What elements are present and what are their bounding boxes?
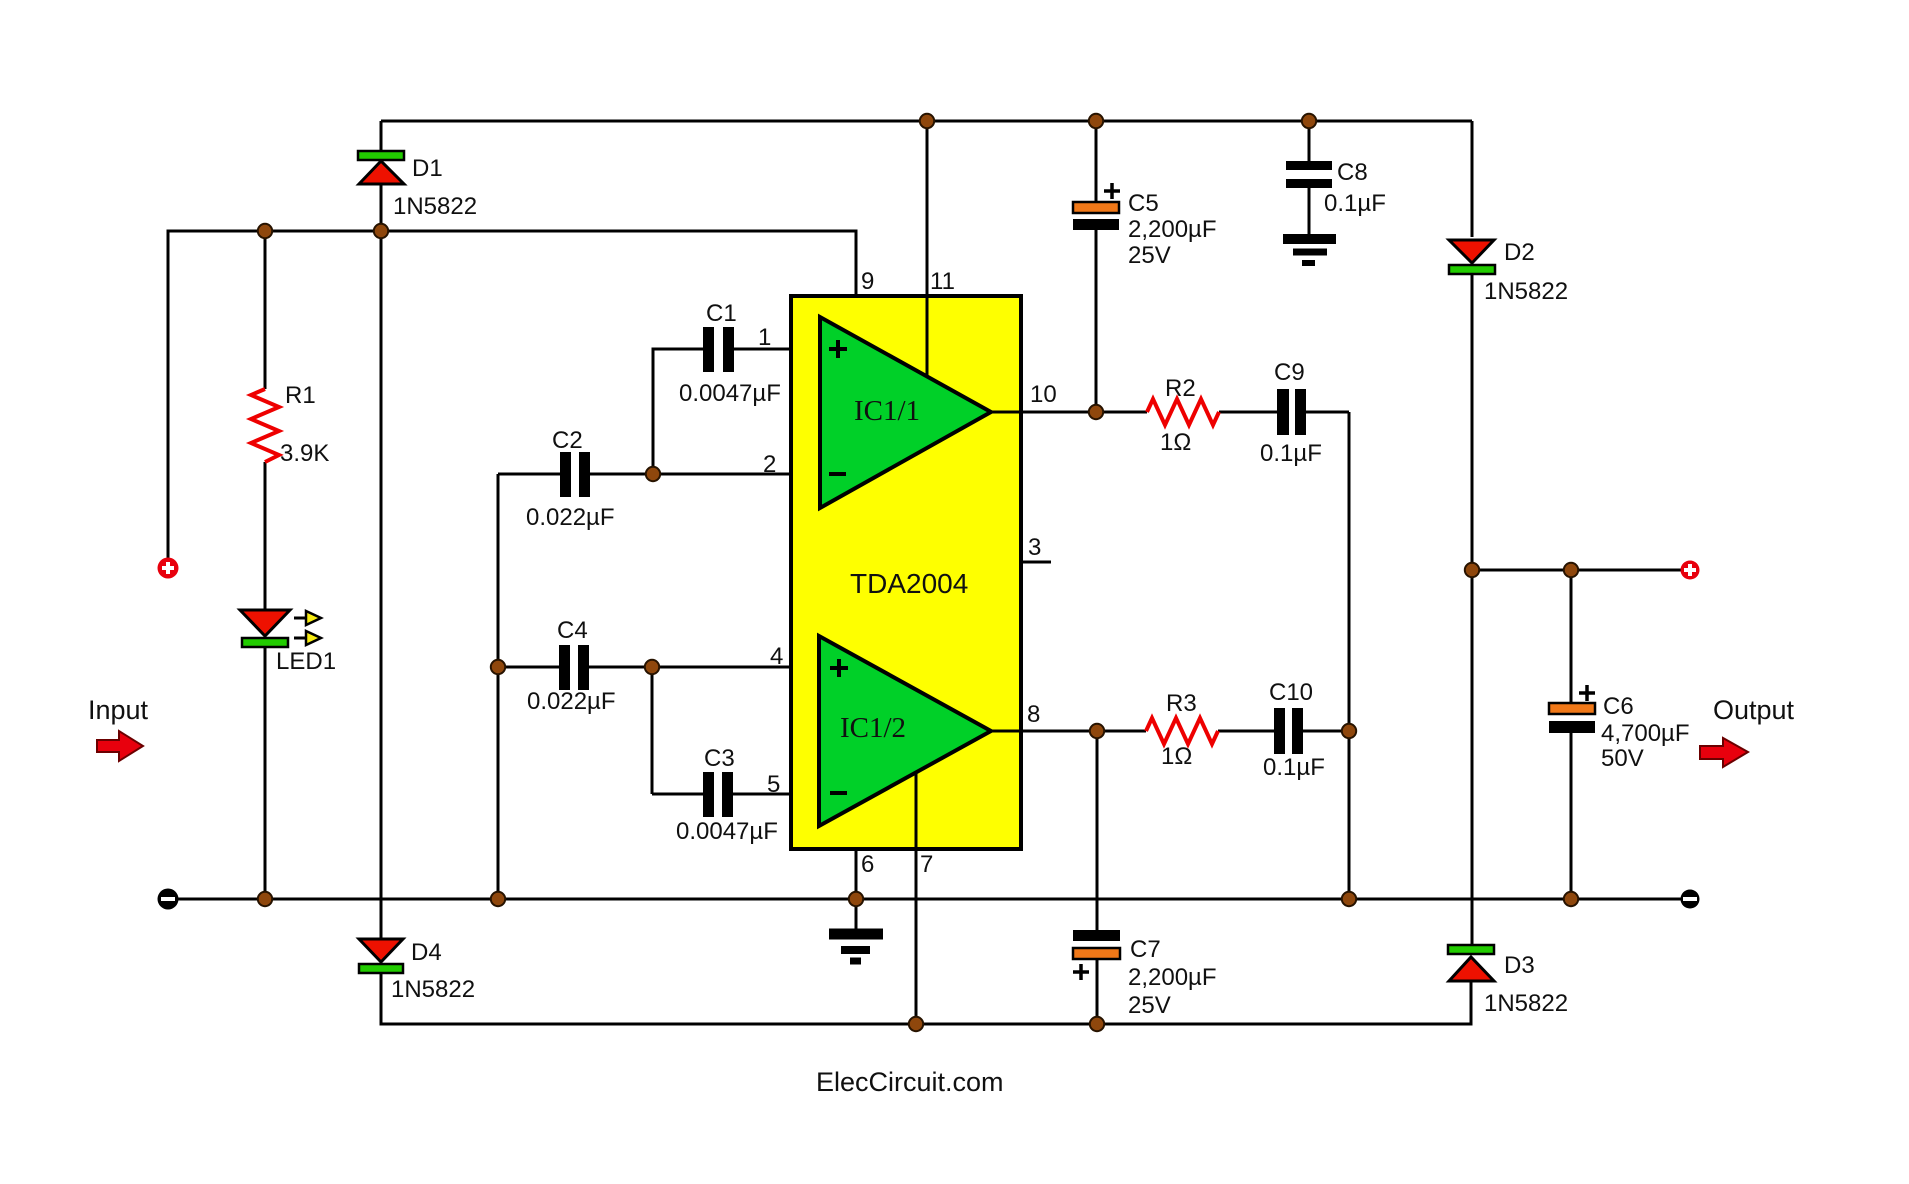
svg-text:1N5822: 1N5822 xyxy=(393,193,477,220)
diode D3 xyxy=(1448,945,1494,954)
svg-text:D4: D4 xyxy=(411,939,442,966)
wire 0V rail xyxy=(168,898,1690,901)
terminal input + xyxy=(158,558,179,579)
node pin4 / x499 xyxy=(491,660,505,674)
svg-text:0.1µF: 0.1µF xyxy=(1324,190,1386,217)
svg-text:1: 1 xyxy=(758,324,771,351)
svg-text:0.0047µF: 0.0047µF xyxy=(679,380,781,407)
node top rail / C8 xyxy=(1302,114,1316,128)
node 0V / pin6 gnd xyxy=(849,892,863,906)
svg-text:0.1µF: 0.1µF xyxy=(1260,440,1322,467)
diode D4 xyxy=(359,939,403,962)
capacitor C3 xyxy=(703,772,714,817)
svg-text:R2: R2 xyxy=(1165,375,1196,402)
svg-text:R1: R1 xyxy=(285,382,316,409)
ground at pin6 xyxy=(829,929,883,940)
capacitor C10 xyxy=(1274,708,1285,754)
svg-text:1N5822: 1N5822 xyxy=(391,976,475,1003)
svg-text:C2: C2 xyxy=(552,427,583,454)
diode D2 xyxy=(1449,240,1494,263)
svg-text:D2: D2 xyxy=(1504,239,1535,266)
svg-text:2,200µF: 2,200µF xyxy=(1128,216,1217,243)
node -V rail / pin7 xyxy=(909,1017,923,1031)
wire pin3 stub xyxy=(1021,561,1051,564)
capacitor C5 electrolytic xyxy=(1073,202,1119,213)
svg-text:4,700µF: 4,700µF xyxy=(1601,720,1690,747)
svg-text:8: 8 xyxy=(1027,701,1040,728)
capacitor C8 xyxy=(1286,161,1332,170)
node 0V / x499 xyxy=(491,892,505,906)
svg-text:ElecCircuit.com: ElecCircuit.com xyxy=(816,1067,1004,1097)
LED1 xyxy=(240,610,290,636)
node rail2 / R1 xyxy=(258,224,272,238)
wire C4-C3 link x652 xyxy=(651,667,654,794)
diode D1 xyxy=(358,151,404,160)
node pin8 / C10 xyxy=(1342,724,1356,738)
wire second rail y231 with left drop to input+ and right drop to pin9 xyxy=(168,231,856,558)
svg-text:1N5822: 1N5822 xyxy=(1484,278,1568,305)
svg-text:Input: Input xyxy=(88,695,149,725)
svg-text:6: 6 xyxy=(861,851,874,878)
wire bottom -V rail xyxy=(381,972,1471,1024)
svg-text:IC1/1: IC1/1 xyxy=(854,395,920,427)
wire pin1 from C1 to IC xyxy=(734,348,791,351)
svg-text:11: 11 xyxy=(930,268,955,295)
svg-text:2,200µF: 2,200µF xyxy=(1128,964,1217,991)
svg-text:1Ω: 1Ω xyxy=(1160,429,1191,456)
node top rail / C5 xyxy=(1089,114,1103,128)
node pin4 / C3 link xyxy=(645,660,659,674)
wire pin2 row xyxy=(498,473,791,476)
svg-text:C6: C6 xyxy=(1603,693,1634,720)
svg-text:TDA2004: TDA2004 xyxy=(850,568,968,599)
node pin2 / C1 xyxy=(646,467,660,481)
wire C1 left loop to pin2 junction xyxy=(653,349,703,474)
svg-text:25V: 25V xyxy=(1128,242,1171,269)
wire D2-D3 column x1472 xyxy=(1471,121,1474,946)
op-amp U1a IC1/1 xyxy=(820,317,991,508)
wire C9/C10 ground drop x1349 xyxy=(1348,412,1351,899)
node pin8 / C7 xyxy=(1090,724,1104,738)
wire pin10 row xyxy=(991,411,1349,414)
terminal input - xyxy=(158,889,179,910)
wire C5 column xyxy=(1095,121,1098,412)
resistor R3 1ohm xyxy=(1146,718,1218,744)
svg-text:9: 9 xyxy=(861,268,874,295)
wire pin6 and ground stem xyxy=(855,849,858,929)
terminal output + xyxy=(1681,561,1700,580)
wire x499 column xyxy=(497,474,500,899)
svg-text:7: 7 xyxy=(920,851,933,878)
svg-text:IC1/2: IC1/2 xyxy=(840,712,906,744)
svg-text:1N5822: 1N5822 xyxy=(1484,990,1568,1017)
svg-text:LED1: LED1 xyxy=(276,648,336,675)
wire pin11 column xyxy=(926,121,929,376)
capacitor C7 electrolytic xyxy=(1073,930,1120,941)
svg-text:10: 10 xyxy=(1030,381,1057,408)
svg-text:D1: D1 xyxy=(412,155,443,182)
wire pin7 column xyxy=(915,772,918,1024)
node 0V / C9C10 drop xyxy=(1342,892,1356,906)
node top rail / pin11 xyxy=(920,114,934,128)
capacitor C4 xyxy=(559,645,570,690)
node pin10 / C5 xyxy=(1089,405,1103,419)
node +out / C6 xyxy=(1564,563,1578,577)
capacitor C2 xyxy=(560,452,571,497)
svg-text:0.0047µF: 0.0047µF xyxy=(676,818,778,845)
IC TDA2004 yellow body xyxy=(791,296,1021,849)
capacitor C6 electrolytic xyxy=(1549,703,1595,714)
svg-text:C7: C7 xyxy=(1130,936,1161,963)
svg-text:50V: 50V xyxy=(1601,745,1644,772)
ground at C8 xyxy=(1283,234,1336,244)
node 0V / R1 xyxy=(258,892,272,906)
svg-text:Output: Output xyxy=(1713,695,1795,725)
svg-text:2: 2 xyxy=(763,451,776,478)
wire C8 column xyxy=(1308,121,1311,234)
capacitor C1 xyxy=(703,327,714,372)
op-amp U1b IC1/2 xyxy=(819,636,991,826)
svg-text:C4: C4 xyxy=(557,617,588,644)
svg-text:C1: C1 xyxy=(706,300,737,327)
svg-text:4: 4 xyxy=(770,643,783,670)
wire pin4 row xyxy=(498,666,791,669)
wire R1/LED column x265 xyxy=(264,231,267,899)
svg-text:C5: C5 xyxy=(1128,190,1159,217)
resistor R1 3.9K xyxy=(251,389,279,462)
terminal output - xyxy=(1681,890,1700,909)
svg-text:D3: D3 xyxy=(1504,952,1535,979)
wire D1-D4 column x381 xyxy=(380,121,383,939)
svg-text:0.022µF: 0.022µF xyxy=(526,504,615,531)
node +out / D2 xyxy=(1465,563,1479,577)
svg-text:1Ω: 1Ω xyxy=(1161,743,1192,770)
svg-text:0.1µF: 0.1µF xyxy=(1263,754,1325,781)
wire C7 column xyxy=(1096,731,1099,1024)
svg-text:C10: C10 xyxy=(1269,679,1313,706)
capacitor C9 xyxy=(1277,389,1289,435)
svg-text:5: 5 xyxy=(767,771,780,798)
svg-text:25V: 25V xyxy=(1128,992,1171,1019)
svg-text:3.9K: 3.9K xyxy=(280,440,329,467)
svg-text:C9: C9 xyxy=(1274,359,1305,386)
svg-text:R3: R3 xyxy=(1166,690,1197,717)
wire output + rail xyxy=(1472,569,1682,572)
wire top +V rail xyxy=(381,120,1472,123)
svg-text:0.022µF: 0.022µF xyxy=(527,688,616,715)
wire pin8 row xyxy=(991,730,1349,733)
wire pin5 row xyxy=(652,793,791,796)
wire C6 column xyxy=(1570,570,1573,899)
node rail2 / D1 xyxy=(374,224,388,238)
node -V rail / C7 xyxy=(1090,1017,1104,1031)
resistor R2 1ohm xyxy=(1147,399,1219,425)
node 0V / C6 xyxy=(1564,892,1578,906)
svg-text:C8: C8 xyxy=(1337,159,1368,186)
svg-text:C3: C3 xyxy=(704,745,735,772)
svg-text:3: 3 xyxy=(1028,534,1041,561)
